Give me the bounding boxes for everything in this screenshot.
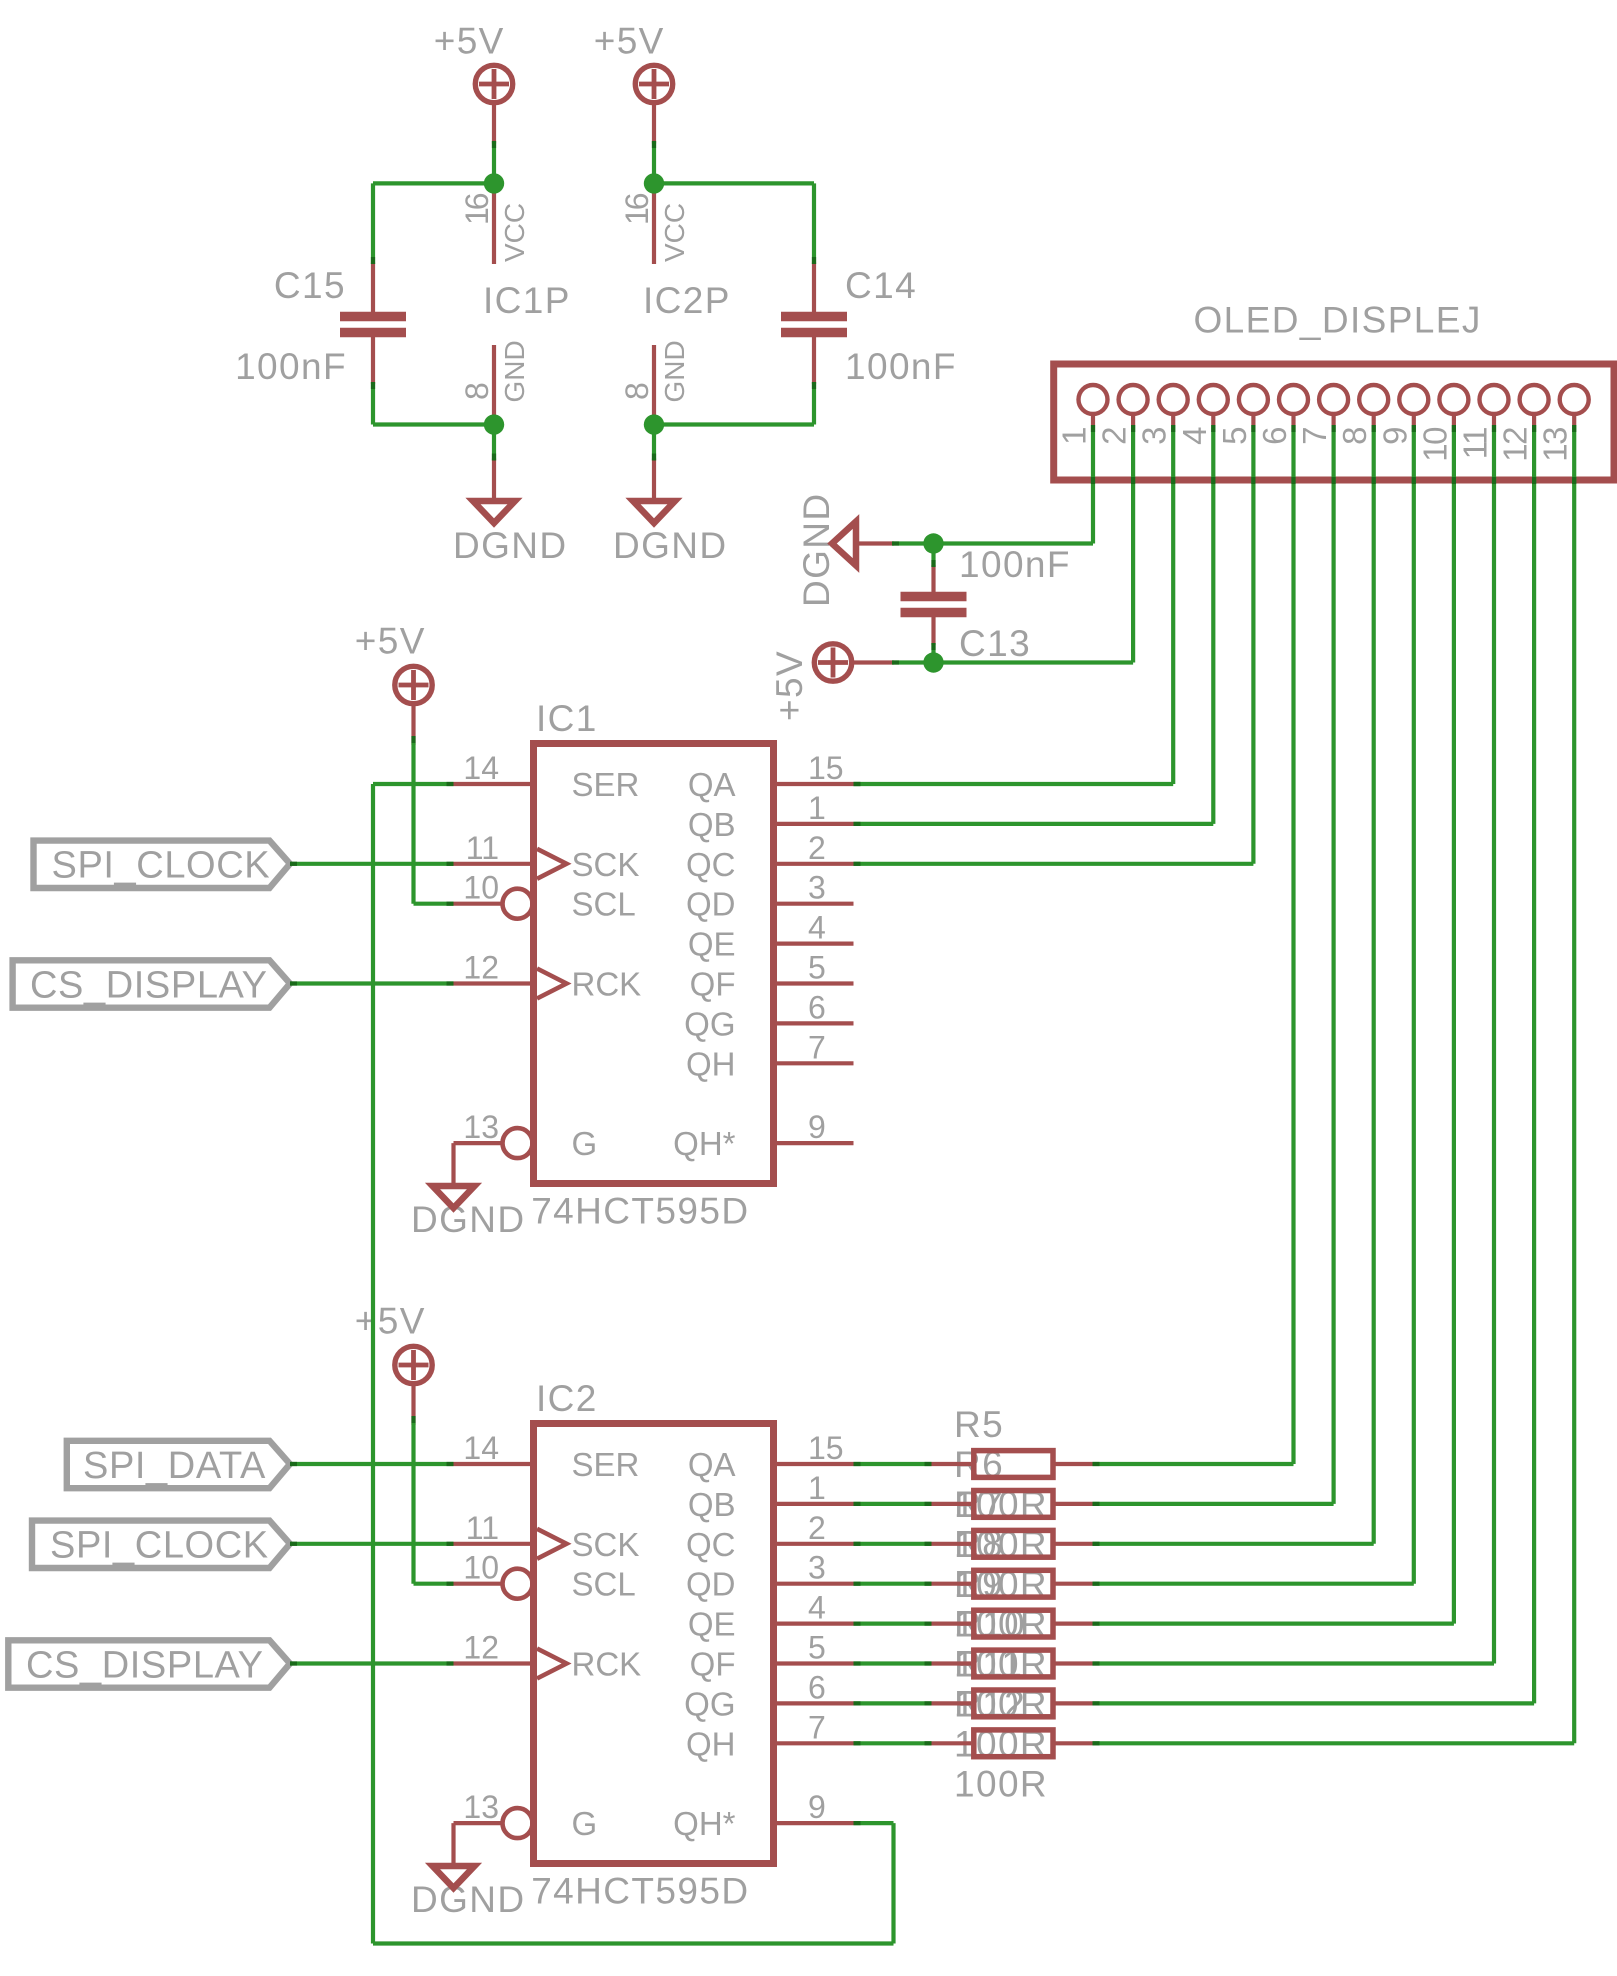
svg-text:3: 3 bbox=[808, 1550, 826, 1586]
svg-text:10: 10 bbox=[463, 1550, 499, 1586]
svg-text:13: 13 bbox=[463, 1109, 499, 1145]
svg-text:QE: QE bbox=[688, 926, 736, 963]
svg-text:IC1: IC1 bbox=[536, 698, 598, 739]
svg-text:SER: SER bbox=[572, 1446, 640, 1483]
svg-text:100R: 100R bbox=[954, 1763, 1048, 1804]
svg-text:QC: QC bbox=[686, 1526, 736, 1563]
svg-text:G: G bbox=[572, 1805, 598, 1842]
svg-text:SPI_CLOCK: SPI_CLOCK bbox=[52, 845, 271, 887]
svg-text:R5: R5 bbox=[954, 1404, 1004, 1445]
svg-text:QH*: QH* bbox=[673, 1805, 736, 1842]
svg-text:14: 14 bbox=[463, 1430, 499, 1466]
svg-text:RCK: RCK bbox=[572, 1646, 642, 1683]
svg-text:DGND: DGND bbox=[411, 1879, 526, 1920]
svg-text:IC1P: IC1P bbox=[483, 280, 571, 321]
svg-text:11: 11 bbox=[466, 830, 499, 866]
svg-text:9: 9 bbox=[1376, 428, 1413, 445]
svg-text:VCC: VCC bbox=[499, 203, 530, 262]
svg-text:12: 12 bbox=[1497, 428, 1534, 462]
svg-text:QH: QH bbox=[686, 1045, 736, 1082]
svg-text:QD: QD bbox=[686, 1566, 736, 1603]
svg-text:C13: C13 bbox=[959, 623, 1031, 664]
svg-text:+5V: +5V bbox=[434, 21, 505, 62]
svg-text:QH*: QH* bbox=[673, 1125, 736, 1162]
svg-text:SPI_CLOCK: SPI_CLOCK bbox=[50, 1525, 269, 1567]
svg-text:C14: C14 bbox=[845, 265, 917, 306]
svg-text:4: 4 bbox=[1176, 427, 1213, 445]
svg-text:QB: QB bbox=[688, 1486, 736, 1523]
svg-text:QF: QF bbox=[690, 966, 736, 1003]
svg-text:6: 6 bbox=[1256, 428, 1293, 445]
svg-text:GND: GND bbox=[659, 340, 690, 402]
svg-text:74HCT595D: 74HCT595D bbox=[531, 1190, 749, 1231]
svg-text:9: 9 bbox=[808, 1789, 826, 1825]
svg-text:15: 15 bbox=[808, 1430, 844, 1466]
svg-text:QC: QC bbox=[686, 846, 736, 883]
svg-text:3: 3 bbox=[1136, 428, 1173, 445]
svg-text:8: 8 bbox=[619, 382, 655, 400]
svg-text:RCK: RCK bbox=[572, 966, 642, 1003]
svg-text:2: 2 bbox=[1096, 428, 1133, 445]
svg-text:CS_DISPLAY: CS_DISPLAY bbox=[30, 964, 268, 1006]
svg-text:QG: QG bbox=[684, 1005, 735, 1042]
svg-text:14: 14 bbox=[463, 750, 499, 786]
svg-text:2: 2 bbox=[808, 1510, 826, 1546]
svg-text:+5V: +5V bbox=[594, 21, 665, 62]
svg-text:SPI_DATA: SPI_DATA bbox=[83, 1445, 266, 1487]
svg-text:4: 4 bbox=[808, 910, 826, 946]
svg-text:CS_DISPLAY: CS_DISPLAY bbox=[26, 1644, 264, 1686]
svg-text:SCL: SCL bbox=[572, 886, 636, 923]
svg-text:100nF: 100nF bbox=[959, 544, 1071, 585]
svg-text:5: 5 bbox=[808, 950, 826, 986]
svg-text:4: 4 bbox=[808, 1590, 826, 1626]
svg-text:IC2P: IC2P bbox=[643, 280, 731, 321]
svg-text:74HCT595D: 74HCT595D bbox=[531, 1870, 749, 1911]
svg-text:SCK: SCK bbox=[572, 1526, 640, 1563]
svg-text:C15: C15 bbox=[274, 265, 346, 306]
svg-text:OLED_DISPLEJ: OLED_DISPLEJ bbox=[1194, 300, 1482, 341]
svg-text:16: 16 bbox=[619, 193, 655, 225]
svg-text:6: 6 bbox=[808, 1669, 826, 1705]
svg-text:QD: QD bbox=[686, 886, 736, 923]
svg-text:G: G bbox=[572, 1125, 598, 1162]
svg-text:+5V: +5V bbox=[355, 621, 426, 662]
svg-text:GND: GND bbox=[499, 340, 530, 402]
svg-text:16: 16 bbox=[459, 193, 495, 225]
svg-text:+5V: +5V bbox=[769, 650, 810, 721]
svg-text:6: 6 bbox=[808, 989, 826, 1025]
svg-text:15: 15 bbox=[808, 750, 844, 786]
svg-text:7: 7 bbox=[808, 1029, 826, 1065]
svg-text:1: 1 bbox=[808, 1470, 826, 1506]
svg-text:QG: QG bbox=[684, 1685, 735, 1722]
svg-text:3: 3 bbox=[808, 870, 826, 906]
svg-text:2: 2 bbox=[808, 830, 826, 866]
svg-text:QA: QA bbox=[688, 1446, 736, 1483]
svg-text:DGND: DGND bbox=[411, 1199, 526, 1240]
svg-text:VCC: VCC bbox=[659, 203, 690, 262]
svg-text:8: 8 bbox=[459, 382, 495, 400]
svg-text:13: 13 bbox=[1537, 428, 1574, 462]
svg-text:DGND: DGND bbox=[613, 525, 728, 566]
svg-text:1: 1 bbox=[1056, 428, 1093, 445]
svg-text:10: 10 bbox=[463, 870, 499, 906]
svg-text:11: 11 bbox=[1457, 428, 1494, 459]
svg-text:10: 10 bbox=[1416, 427, 1453, 462]
svg-text:7: 7 bbox=[1296, 428, 1333, 445]
svg-text:SER: SER bbox=[572, 766, 640, 803]
svg-text:11: 11 bbox=[466, 1510, 499, 1546]
svg-text:QE: QE bbox=[688, 1606, 736, 1643]
svg-text:8: 8 bbox=[1336, 428, 1373, 445]
svg-text:QF: QF bbox=[690, 1646, 736, 1683]
svg-text:DGND: DGND bbox=[453, 525, 568, 566]
svg-text:100nF: 100nF bbox=[235, 346, 347, 387]
svg-text:IC2: IC2 bbox=[536, 1378, 598, 1419]
svg-text:+5V: +5V bbox=[355, 1301, 426, 1342]
svg-text:SCK: SCK bbox=[572, 846, 640, 883]
svg-text:5: 5 bbox=[1216, 428, 1253, 445]
svg-text:9: 9 bbox=[808, 1109, 826, 1145]
svg-text:5: 5 bbox=[808, 1630, 826, 1666]
svg-text:12: 12 bbox=[463, 1630, 499, 1666]
svg-text:SCL: SCL bbox=[572, 1566, 636, 1603]
svg-text:QA: QA bbox=[688, 766, 736, 803]
svg-text:1: 1 bbox=[808, 790, 826, 826]
svg-text:QH: QH bbox=[686, 1725, 736, 1762]
svg-text:100nF: 100nF bbox=[845, 346, 957, 387]
svg-text:QB: QB bbox=[688, 806, 736, 843]
svg-text:12: 12 bbox=[463, 950, 499, 986]
svg-text:7: 7 bbox=[808, 1709, 826, 1745]
svg-text:DGND: DGND bbox=[796, 492, 837, 607]
svg-text:13: 13 bbox=[463, 1789, 499, 1825]
